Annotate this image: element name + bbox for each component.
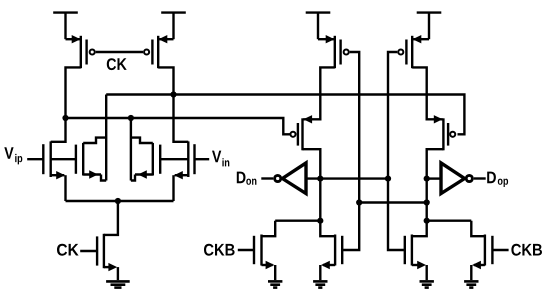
node Q_n junction bbox=[424, 218, 430, 224]
node Q_p junction bbox=[317, 218, 323, 224]
wire Vin line to C2 gate bbox=[160, 158, 188, 160]
wire Vip line to C1 gate bbox=[51, 158, 76, 160]
label CK (precharge clock) bbox=[107, 58, 127, 70]
transistor M6 (PMOS, latch top-left) bbox=[318, 35, 349, 68]
wire M3 source to tail node bbox=[64, 175, 66, 201]
wire rail node Di_p (to M8 gate) bbox=[66, 118, 291, 134]
wire node Q_n (M13 drain to M12 drain) bbox=[427, 219, 472, 221]
power VDD symbol (M2 source) bbox=[161, 13, 186, 40]
node Di_p junction at M1/M3 drains bbox=[62, 115, 68, 121]
label CK (tail clock) bbox=[57, 244, 79, 256]
node Di_n junction at M2/M4 drains bbox=[170, 91, 176, 97]
label Vin (input) bbox=[212, 151, 229, 167]
power VDD symbol (M1 source) bbox=[53, 13, 78, 40]
label CKB (right reset clock) bbox=[511, 244, 542, 256]
op-amp U1 (inverter, output Don) bbox=[261, 163, 306, 194]
wire tail node (M3/M4 sources to M5 drain) bbox=[66, 200, 174, 202]
ground (M10 source) bbox=[268, 265, 282, 288]
label CKB (left reset clock) bbox=[204, 244, 235, 256]
wire M4 source to tail node bbox=[172, 175, 174, 201]
capacitor C2 (MOS-cap, gate at Vin, D/S to Di_p) bbox=[131, 118, 160, 181]
transistor M8 (PMOS pass, left) bbox=[290, 118, 302, 150]
wire U1 input to node Q_p and M7 gate line bbox=[306, 177, 388, 179]
ground (M11 source) bbox=[313, 265, 327, 288]
ground (M13 source) bbox=[464, 265, 478, 288]
wire M8 drain to node Q_p / M11 drain bbox=[303, 149, 336, 236]
transistor M3 (NMOS input, Vip) bbox=[27, 141, 65, 179]
node junction on M9 drain line bbox=[424, 199, 430, 205]
wire cross-couple Q_n (M6/M11 gate line to M9 drain) bbox=[359, 201, 427, 203]
wire rail node Di_n (to M9 gate) bbox=[106, 95, 464, 135]
transistor M10 (NMOS reset, CKB left) bbox=[238, 221, 275, 270]
node junction on M6 gate line bbox=[356, 199, 362, 205]
ground (M12 source) bbox=[420, 265, 434, 288]
transistor M12 (NMOS latch right) bbox=[405, 235, 426, 270]
label Dop (output) bbox=[487, 172, 508, 187]
ground (M5 source) bbox=[106, 267, 130, 288]
wire node Q_p (M10 drain to M11 drain) bbox=[275, 219, 320, 221]
wire M1 drain to node Di_p rail / M3 drain bbox=[51, 67, 81, 141]
wire M9 drain to node Q_n / M12 drain bbox=[412, 149, 444, 236]
node Q_p junction at U1 input bbox=[317, 176, 323, 182]
node Q_n junction at U2 input bbox=[424, 176, 430, 182]
node junction C2 drain-source at Di_p rail bbox=[128, 115, 134, 121]
wire M2 drain to node Di_n rail / M4 drain bbox=[158, 67, 188, 141]
wire U2 input to node Q_n bbox=[427, 177, 441, 179]
node junction M7-gate line at Q_p wire bbox=[385, 176, 391, 182]
label Don (output) bbox=[237, 172, 257, 185]
power VDD symbol (M7 source) bbox=[417, 13, 442, 40]
transistor M4 (NMOS input, Vin) bbox=[174, 141, 209, 179]
transistor M2 (PMOS, clock precharge right) bbox=[144, 35, 173, 68]
transistor M11 (NMOS latch left) bbox=[321, 235, 342, 270]
wire M7 drain down to M9 source bbox=[412, 67, 442, 123]
wire M7 gate cross-couple to node Q_p bbox=[388, 52, 404, 250]
power VDD symbol (M6 source) bbox=[306, 13, 331, 40]
transistor M1 (PMOS, clock precharge left) bbox=[66, 35, 95, 68]
transistor M7 (PMOS, latch top-right) bbox=[398, 35, 429, 68]
node tail junction bbox=[115, 198, 121, 204]
op-amp U2 (inverter, output Dop) bbox=[441, 163, 486, 194]
transistor M5 (NMOS tail, CK) bbox=[80, 201, 118, 271]
transistor M9 (PMOS pass, right) bbox=[443, 118, 455, 150]
wire M6 drain down to M8 source bbox=[303, 67, 335, 123]
transistor M13 (NMOS reset, CKB right) bbox=[471, 221, 508, 270]
capacitor C1 (MOS-cap, gate at Vip, D/S to Di_n) bbox=[76, 95, 106, 181]
label Vip (input) bbox=[4, 147, 22, 164]
wire M6 gate cross-couple to node Q_n bbox=[343, 52, 359, 250]
wire CK gate (M1-M2) bbox=[96, 51, 143, 53]
